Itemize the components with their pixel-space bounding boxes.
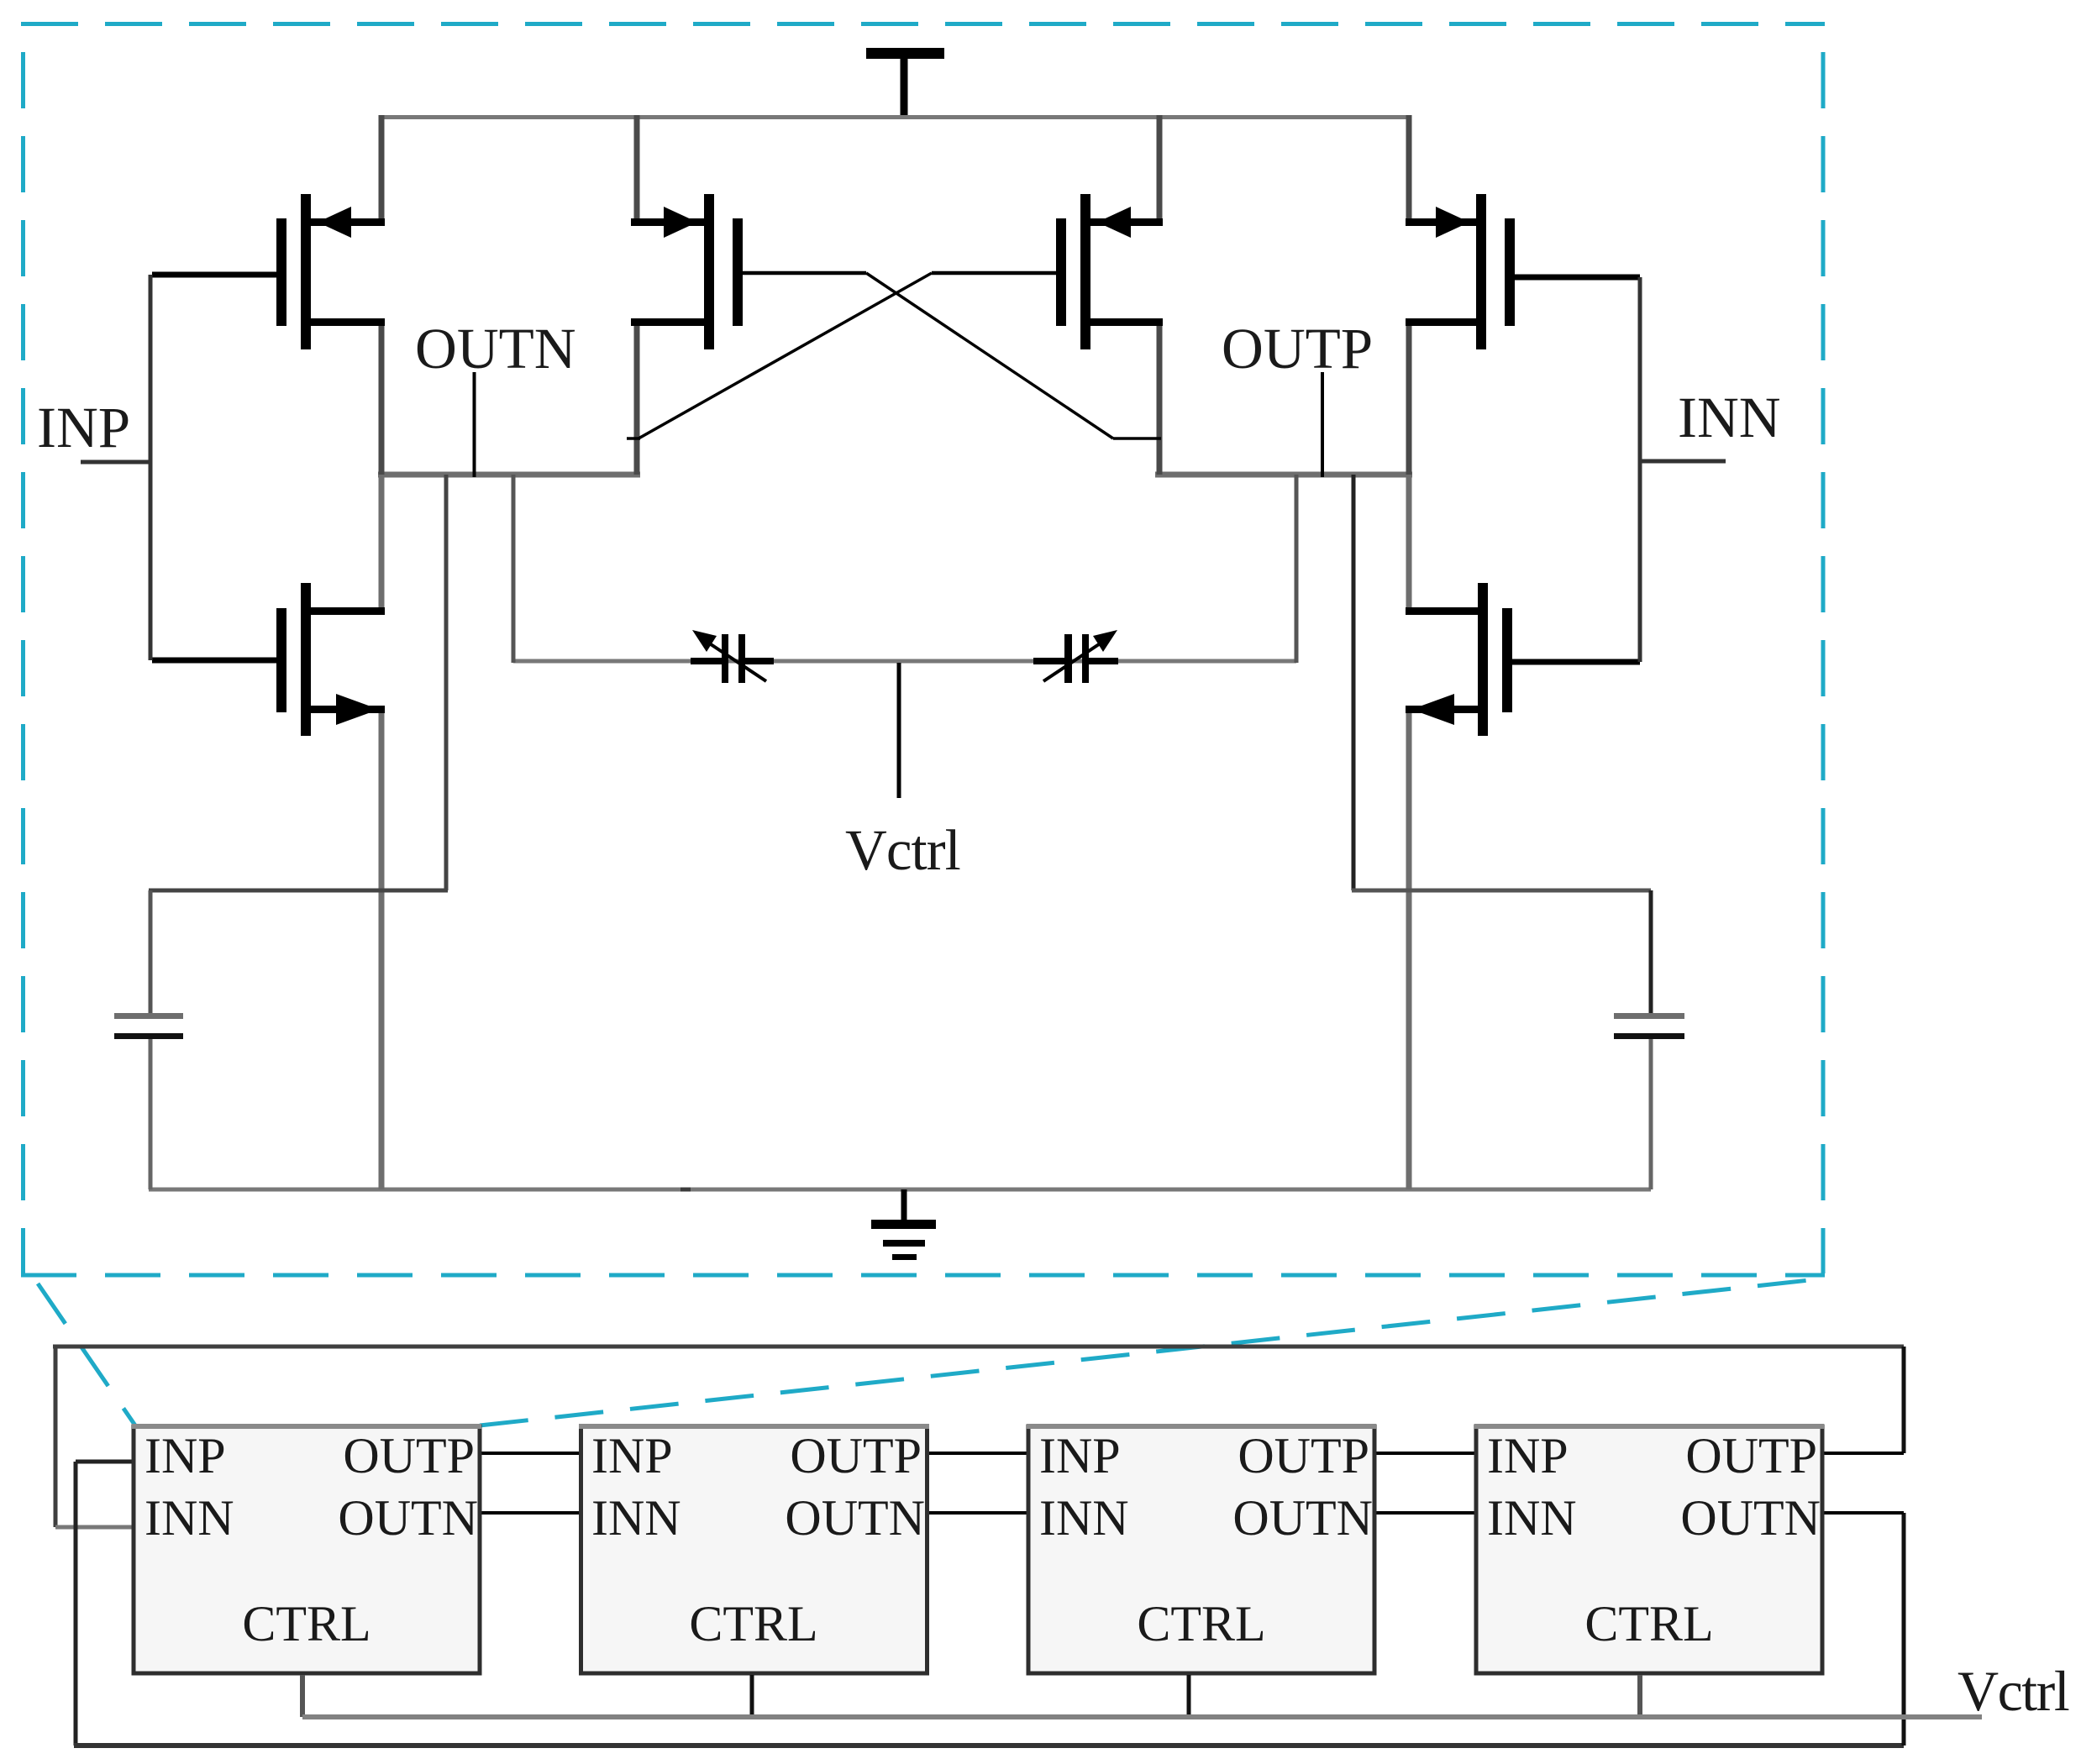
svg-text:OUTN: OUTN — [1232, 1490, 1373, 1546]
svg-text:OUTN: OUTN — [785, 1490, 925, 1546]
svg-text:INN: INN — [1678, 386, 1781, 449]
svg-text:OUTP: OUTP — [1238, 1428, 1369, 1483]
svg-text:CTRL: CTRL — [689, 1596, 817, 1651]
svg-text:OUTP: OUTP — [790, 1428, 922, 1483]
svg-text:CTRL: CTRL — [1584, 1596, 1713, 1651]
svg-text:OUTN: OUTN — [338, 1490, 478, 1546]
svg-text:INN: INN — [145, 1490, 234, 1546]
svg-text:OUTP: OUTP — [1222, 317, 1373, 381]
svg-text:INP: INP — [37, 396, 130, 459]
svg-text:INP: INP — [1487, 1428, 1569, 1483]
svg-text:Vctrl: Vctrl — [1958, 1659, 2069, 1723]
svg-text:OUTP: OUTP — [1685, 1428, 1817, 1483]
svg-text:OUTN: OUTN — [1680, 1490, 1821, 1546]
svg-text:CTRL: CTRL — [1137, 1596, 1265, 1651]
svg-text:INP: INP — [1039, 1428, 1121, 1483]
svg-text:Vctrl: Vctrl — [845, 818, 960, 882]
svg-text:INN: INN — [1487, 1490, 1577, 1546]
svg-text:INN: INN — [1039, 1490, 1129, 1546]
svg-text:INP: INP — [591, 1428, 673, 1483]
svg-text:INN: INN — [591, 1490, 681, 1546]
svg-text:INP: INP — [145, 1428, 226, 1483]
svg-text:OUTN: OUTN — [415, 317, 576, 381]
svg-text:CTRL: CTRL — [242, 1596, 370, 1651]
svg-text:OUTP: OUTP — [343, 1428, 475, 1483]
